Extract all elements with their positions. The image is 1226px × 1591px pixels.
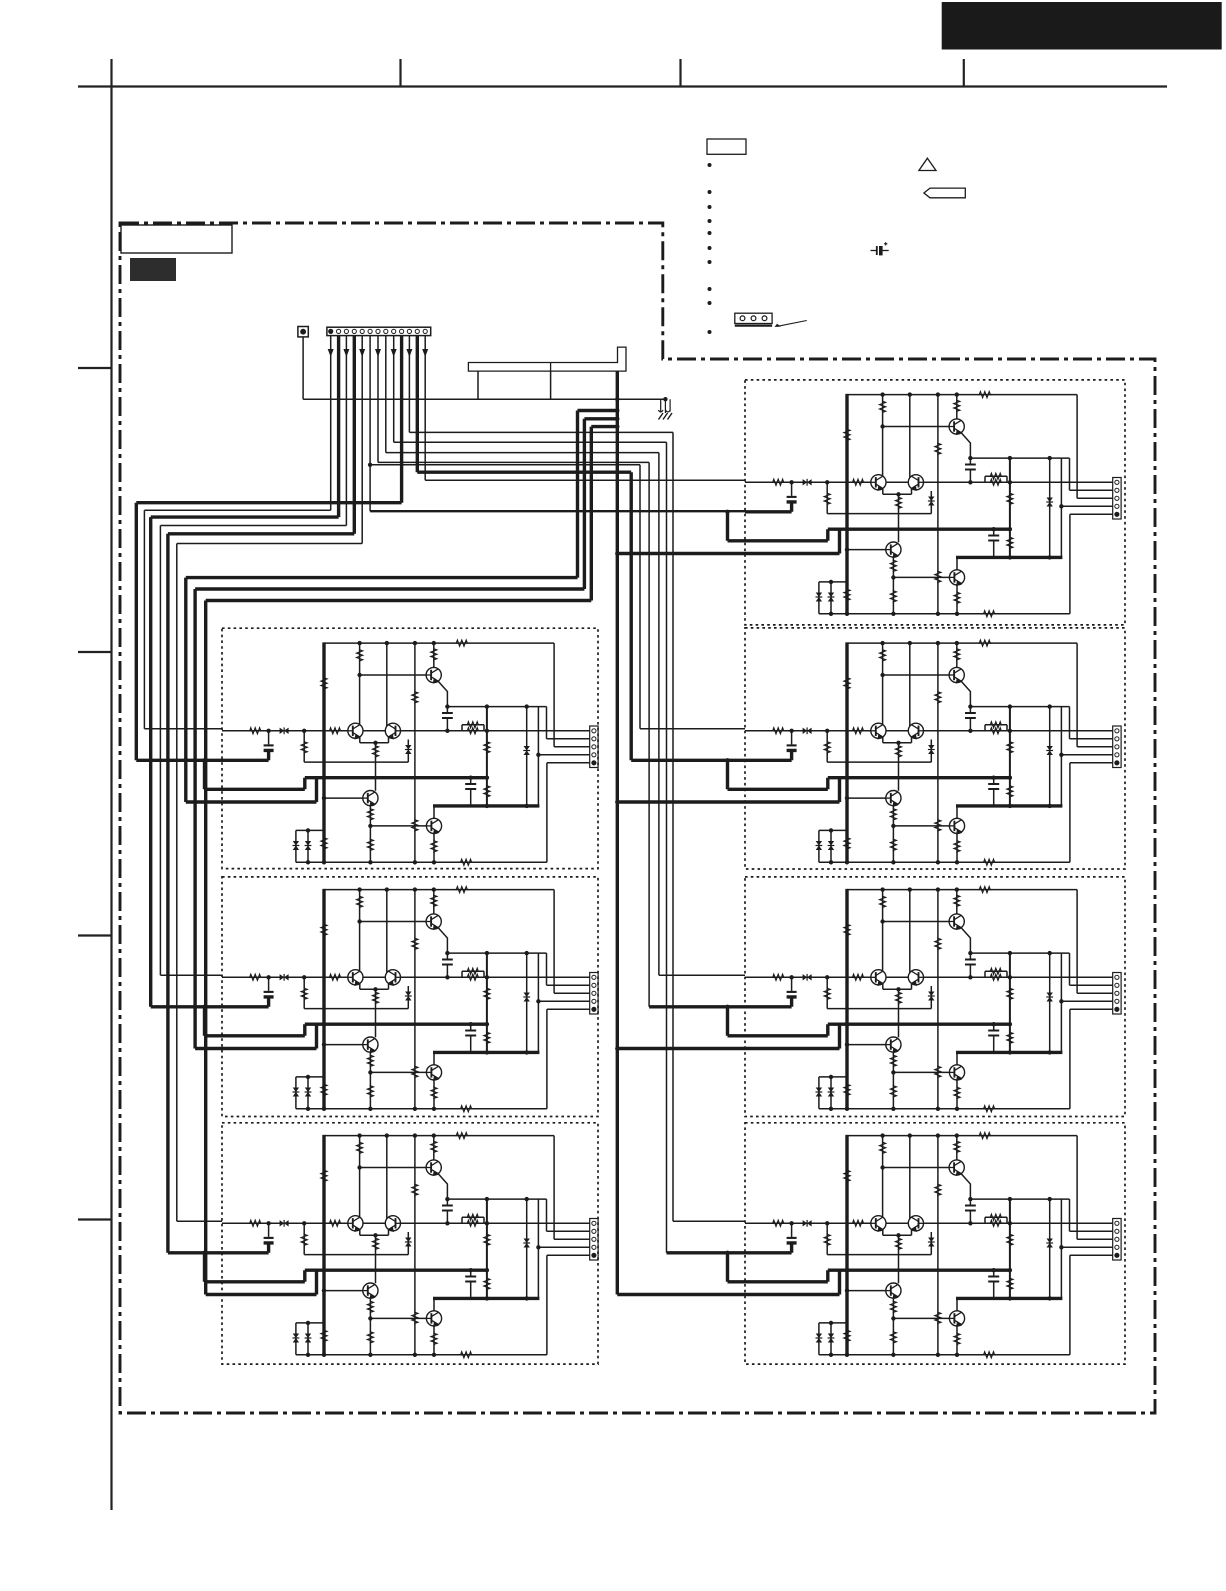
wire J2.3 to CH5 input bbox=[160, 336, 346, 975]
CH4 amplifier bbox=[725, 887, 1121, 1112]
wire J2.5 to CH7 input bbox=[177, 336, 362, 1221]
crop rule top bbox=[78, 85, 1167, 87]
J2 pin 8 bbox=[384, 329, 388, 333]
J2 pin 3 bbox=[344, 329, 348, 333]
wire J2.4 to CH7 V- bbox=[168, 336, 354, 1253]
wire common taps to CH1 CH2 CH4 CH6 bbox=[617, 554, 745, 1295]
wire J2.7 to CH4 V- vertical bbox=[378, 336, 649, 1007]
CH3 amplifier bbox=[202, 640, 598, 865]
board name black label bbox=[130, 258, 176, 281]
wire common thick vertical bbox=[616, 371, 619, 1294]
wire J2.9 to CH6 V- vertical bbox=[394, 336, 667, 1253]
wire supply C to CH7 return bbox=[206, 427, 618, 1295]
wire CH4 V- feed bbox=[649, 1005, 745, 1008]
node GND bus bbox=[303, 337, 665, 399]
bus junction dots bbox=[368, 397, 668, 1051]
crop ticks top bbox=[401, 59, 964, 87]
wire supply A to CH3 return bbox=[186, 411, 618, 803]
wire CH6 V- feed bbox=[667, 1251, 746, 1254]
connector legend icon bbox=[735, 313, 807, 327]
J2 pin 2 bbox=[337, 329, 341, 333]
signal flow arrows bbox=[328, 349, 429, 357]
wire J2.8 to CH4 input bbox=[386, 336, 745, 975]
wire supply B to CH5 return bbox=[195, 419, 617, 1049]
polarized capacitor legend icon bbox=[871, 242, 889, 255]
connector J1 single pin bbox=[298, 327, 308, 337]
wire J2.10 to CH3 V- bbox=[136, 336, 401, 760]
shield label bar bbox=[468, 347, 626, 371]
CH2 amplifier bbox=[725, 640, 1121, 865]
wire CH1 V- feed bbox=[370, 510, 745, 512]
connector J2 header bbox=[327, 327, 431, 335]
J2 pin 4 bbox=[352, 329, 356, 333]
J2 pin 6 bbox=[368, 329, 372, 333]
wire J2.12 to CH2 V- bbox=[417, 336, 745, 760]
J2 pin 13 bbox=[423, 329, 427, 333]
CH1 amplifier bbox=[725, 392, 1121, 617]
CH4 block outline bbox=[745, 877, 1125, 1117]
wire J2.13 to CH1 input bbox=[425, 336, 745, 480]
CH7 amplifier bbox=[202, 1133, 598, 1358]
crop rule left bbox=[110, 59, 112, 1510]
wire J2.6 to CH2 input and CH1 V- bbox=[370, 336, 745, 729]
chassis ground bbox=[658, 399, 672, 419]
J2 pin 5 bbox=[360, 329, 364, 333]
CH2 block outline bbox=[745, 628, 1125, 869]
CH7 block outline bbox=[222, 1123, 598, 1364]
J2 pin 12 bbox=[415, 329, 419, 333]
CH5 amplifier bbox=[202, 887, 598, 1112]
J2 pin 10 bbox=[400, 329, 404, 333]
CH5 block outline bbox=[222, 877, 598, 1117]
CH1 block outline bbox=[745, 380, 1125, 625]
CH6 amplifier bbox=[725, 1133, 1121, 1358]
board outline dash-dot border bbox=[120, 223, 1155, 1413]
reference white box bbox=[121, 225, 232, 253]
wire J2.2 to CH5 V- bbox=[151, 336, 339, 1007]
CH3 block outline bbox=[222, 628, 598, 868]
J2 pin 11 bbox=[407, 329, 411, 333]
J2 pin 7 bbox=[376, 329, 380, 333]
crop ticks left bbox=[78, 368, 112, 1220]
wire J2.11 to CH6 input bbox=[409, 336, 745, 1221]
note bullets bbox=[708, 163, 712, 334]
J2 pin 1 bbox=[329, 329, 333, 333]
wire bar stubs bbox=[478, 371, 551, 399]
CH6 block outline bbox=[745, 1123, 1125, 1364]
wire J2.1 to CH3 input bbox=[144, 336, 330, 729]
note legend box bbox=[707, 139, 746, 154]
arrow label box bbox=[924, 188, 965, 198]
title block bbox=[942, 2, 1222, 50]
warning triangle bbox=[919, 158, 936, 170]
J2 pin 9 bbox=[392, 329, 396, 333]
